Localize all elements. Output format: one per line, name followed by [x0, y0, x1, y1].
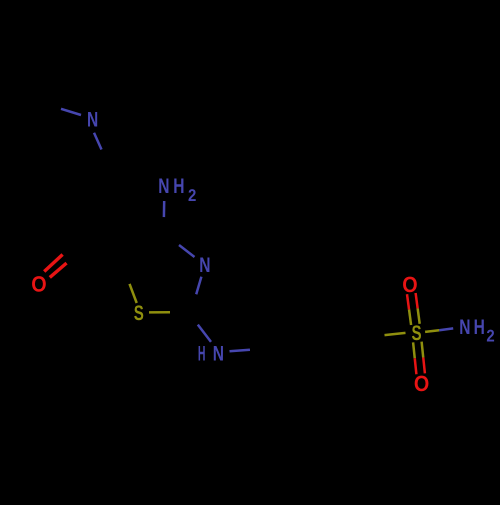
bond C4-N3 (nitrogen half) [179, 245, 195, 257]
S2=O bottom double bond line 1 (red half) [415, 358, 417, 374]
svg-text:N: N [459, 316, 470, 339]
pyridine ring (carbon bonds, on black) [0, 103, 110, 215]
benzene ring (carbon bonds, invisible on black) [270, 297, 362, 388]
svg-text:N: N [87, 109, 98, 132]
anilino HN label [198, 343, 224, 366]
svg-text:2: 2 [486, 326, 494, 345]
svg-text:H: H [198, 343, 206, 366]
amino NH2 label [158, 175, 196, 205]
bond S2-NH2 (nitrogen half) [439, 328, 453, 330]
bond Cco-C5 thiazole (carbon, invisible) [83, 249, 122, 265]
svg-text:N: N [199, 254, 210, 277]
bond NH2-C4 (nitrogen half) [163, 201, 166, 217]
S2=O top double bond line 2 (red half) [416, 293, 418, 308]
bond NH-C1phenyl (carbon half, invisible) [250, 348, 270, 350]
S2=O bottom double bond line 2 (red half) [423, 358, 425, 374]
ketone C=O main line (red half) [50, 263, 67, 277]
ketone C=O main line (carbon half, invisible) [67, 249, 84, 263]
bond S1-C5 (sulfur half) [130, 284, 137, 303]
bond C4phenyl-S2 (carbon half, invisible) [363, 335, 385, 337]
svg-text:2: 2 [188, 186, 196, 205]
svg-text:H: H [173, 175, 184, 198]
bond C4phenyl-S2 (sulfur half) [385, 333, 406, 335]
svg-text:O: O [31, 272, 46, 297]
S2=O bottom double bond line 1 (sulfur half) [413, 342, 415, 358]
S2=O bottom double bond line 2 (sulfur half) [422, 342, 424, 358]
bond S1-C5 (carbon half, invisible) [122, 265, 129, 284]
bond N3-C2 (carbon half, invisible) [191, 294, 196, 312]
thiazole ring: C5-C4 bond (carbon, invisible) [122, 233, 163, 265]
ketone C=O second line (red half) [44, 255, 62, 272]
svg-text:O: O [414, 371, 429, 396]
svg-text:N: N [158, 175, 169, 198]
bond C2-NH (carbon half, invisible) [191, 312, 198, 325]
bond C2'-N1 (blue half) [61, 109, 81, 115]
bond N3-C2 (nitrogen half) [196, 277, 201, 295]
bond S1-C2 (carbon half, invisible) [170, 311, 191, 314]
bond N1-C6' (blue half) [94, 133, 102, 150]
bond C2-NH (nitrogen half) [198, 325, 211, 342]
S2=O top double bond line 1 (sulfur half) [409, 310, 411, 325]
bond C5'-Cco (carbon, invisible) [62, 214, 83, 249]
svg-text:H: H [474, 316, 485, 339]
bond C4-N3 (carbon half, invisible) [164, 233, 180, 245]
bond NH-C1phenyl (nitrogen half) [230, 350, 251, 352]
sulfonamide NH2 label [459, 316, 495, 345]
bond S2-NH2 (sulfur half) [425, 330, 439, 332]
bond NH2-C4 (carbon half, invisible) [162, 217, 165, 233]
svg-text:N: N [213, 343, 224, 366]
svg-text:O: O [402, 272, 417, 297]
svg-text:S: S [134, 302, 144, 325]
S2=O top double bond line 1 (red half) [407, 294, 409, 309]
bond S1-C2 (sulfur half) [149, 311, 170, 314]
S2=O top double bond line 2 (sulfur half) [418, 308, 420, 323]
svg-text:S: S [411, 322, 421, 345]
